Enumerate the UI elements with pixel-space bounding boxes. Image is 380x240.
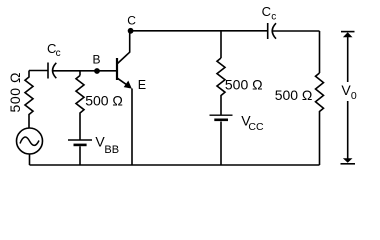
output voltage annotation V0 (dimension arrow): [341, 32, 356, 164]
label Cc (input capacitor): [47, 41, 61, 59]
svg-text:500 Ω: 500 Ω: [85, 93, 123, 109]
capacitor Cc (input coupling capacitor): [48, 63, 56, 79]
capacitor Cc (output coupling capacitor): [268, 23, 276, 39]
wire: right vertical down to load resistor: [319, 31, 321, 73]
svg-text:C: C: [262, 4, 271, 19]
svg-text:CC: CC: [248, 121, 264, 133]
battery VBB: [68, 140, 92, 165]
label Cc (output capacitor): [262, 4, 277, 23]
svg-text:500 Ω: 500 Ω: [225, 76, 263, 92]
wire: AC source bottom to ground rail: [29, 154, 31, 165]
node C (collector node dot): [128, 28, 134, 34]
transistor Q1 (NPN BJT): [117, 31, 132, 89]
wire: output Cc to load resistor (top right corner): [272, 30, 319, 32]
svg-text:c: c: [56, 48, 61, 59]
svg-text:500 Ω: 500 Ω: [7, 73, 23, 113]
resistor R-base 500 ohm (base bias, above VBB): [76, 76, 84, 140]
svg-text:V: V: [341, 82, 351, 98]
svg-text:B: B: [93, 53, 101, 67]
svg-text:BB: BB: [104, 144, 119, 156]
svg-text:C: C: [127, 14, 136, 28]
label VCC: [241, 112, 264, 133]
wire: bottom ground rail: [30, 164, 320, 166]
resistor R-source 500 ohm (left vertical, between input wire and AC source): [25, 71, 33, 129]
resistor R-collector 500 ohm (above VCC): [217, 58, 225, 115]
svg-text:E: E: [138, 78, 146, 92]
wire: Cc to transistor base (through node B): [53, 70, 116, 72]
resistor R-load 500 ohm (output load): [316, 73, 324, 165]
svg-text:c: c: [271, 12, 276, 23]
wire: junction down to base bias resistor: [79, 71, 81, 76]
wire: input top-left horizontal segment (source to Cc): [29, 70, 48, 72]
svg-text:500 Ω: 500 Ω: [275, 87, 313, 103]
AC source VS (sine source circle): [17, 128, 43, 154]
label VBB: [95, 134, 119, 157]
battery VCC: [210, 115, 233, 165]
wire: emitter down to ground rail: [131, 89, 133, 166]
wire: junction down to collector load resistor: [220, 31, 222, 58]
wire: top rail (collector node to output Cc): [131, 30, 268, 32]
node B (base node dot): [94, 68, 100, 74]
label V0 (output voltage): [341, 82, 357, 102]
svg-text:0: 0: [351, 90, 357, 102]
